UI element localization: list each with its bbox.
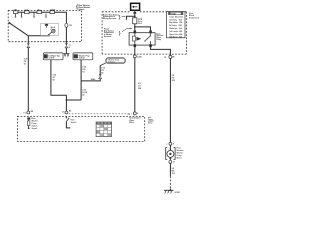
svg-text:Motor: Motor [129,121,134,124]
destination entry triangles [64,53,69,56]
connector circle C1 on x28 wire [23,111,33,114]
rear window wiper/washer switch S1 dashed boundary [8,10,81,41]
wire: wiper signal long run x28 [27,48,29,111]
connector circle mid at motor [128,112,138,116]
ground wire [169,163,171,176]
power distribution callout 2 [104,28,132,39]
wire label 0.8 GY 228 [138,83,141,90]
svg-text:93: 93 [82,71,84,73]
wire label x100 [101,67,105,74]
wire from arrow box [134,10,136,12]
wire vertical x100 from callout [99,66,101,75]
svg-text:Indicator: Indicator [108,60,115,63]
wire from left dest box x50.9 [51,60,67,96]
wash sub-switch box [41,23,59,36]
wash motor icon W1 [51,27,56,33]
relay coil [132,33,141,44]
svg-text:Rr Defog 25A: Rr Defog 25A [169,24,182,27]
liftgate note label [148,116,154,125]
washer feed wire right column [169,58,171,142]
relay label [156,33,163,41]
svg-text:Htd Mirror 15A: Htd Mirror 15A [169,35,182,38]
washer pump bracket right [174,148,176,160]
power distribution callout 1 [103,13,125,20]
wire into pump [169,145,171,150]
pump output pin [169,156,171,159]
wire x66 to destination split [65,48,67,53]
fuse F1 [133,18,137,24]
svg-text:OFF: OFF [14,9,17,11]
leader line to oval callout [100,63,106,66]
wire label 0.35 GY 92 [53,74,57,81]
svg-text:92: 92 [53,79,55,81]
oval reference callout box [106,58,126,64]
wire label 0.8 BK 155 [172,168,175,175]
svg-text:Cell 91: Cell 91 [49,58,55,60]
wire vertical x66 into motor [65,95,67,111]
svg-text:Dm Relay 10A: Dm Relay 10A [169,18,182,21]
svg-text:Switch: Switch [78,8,84,11]
destination box: interval wipe module [43,53,63,60]
motor label [129,118,141,124]
fuse label WPR 30A [138,19,143,25]
fuse block label [189,13,200,20]
svg-text:Wiring Systems: Wiring Systems [103,17,116,20]
svg-text:91: 91 [24,63,26,65]
washer pump bracket left [166,148,168,160]
washer pump label [177,148,184,160]
wiper arm pivot dot [8,22,10,24]
svg-text:G305: G305 [174,192,180,194]
connector circle washer pump top [166,142,174,146]
svg-text:Motor: Motor [177,157,182,160]
ground distribution dashed wire [169,176,171,188]
wire label 0.35 DG 94 [82,90,87,97]
svg-text:Radio Ign 10A: Radio Ign 10A [169,27,182,30]
switch contact box 4 [50,11,55,14]
svg-text:95: 95 [101,72,103,74]
circuit breaker CB ellipse [65,23,73,27]
switch contact box 3 [37,11,42,14]
connector circle pump bottom [169,160,175,163]
svg-text:Signal: Signal [32,128,38,130]
svg-text:C240: C240 [137,55,141,58]
wire horizontal y80.9 to splice [81,79,100,81]
park switch symbol [66,116,76,128]
switch contact box 2 [25,11,30,14]
motor function grid table [96,122,112,137]
relay K1 box [129,33,155,45]
wire horizontal y100 [66,99,81,101]
inline connector bowtie x100 [99,74,102,78]
contact stub and dot 4 [45,14,47,18]
branch arrowhead [126,19,128,21]
svg-text:Wpr Motor 30A: Wpr Motor 30A [169,21,183,24]
relay contact [144,33,151,44]
wire fuse to relay [134,24,136,30]
svg-text:155: 155 [172,173,175,175]
wire label 0.35 OG 93 [82,66,86,73]
fuse block legend table [167,12,186,39]
relay pin bottom left [134,44,137,47]
inline connector on wiper signal wire x28 [27,36,30,48]
svg-text:Underhood: Underhood [189,18,200,20]
ground G305 [164,189,181,195]
svg-text:Systems: Systems [104,35,111,38]
contact stub and dot 2 [21,12,23,17]
contact stub and dot 1 [15,14,17,18]
wash contact lead [46,26,48,28]
svg-text:Tail Lamps 15A: Tail Lamps 15A [169,30,182,33]
svg-text:}: } [119,14,121,20]
junction node dot S-wire [66,99,68,101]
svg-text:228: 228 [138,88,141,90]
svg-text:B2: B2 [69,111,71,113]
svg-text:C1: C1 [62,112,64,114]
relay pin top right [149,30,152,33]
switch bus wire [14,12,67,23]
svg-text:C2: C2 [164,57,166,59]
wiper common wire [28,35,50,37]
washer pump motor M1 [167,150,174,157]
main wiper feed wire mid column [134,58,136,112]
inline connector on wash wire x66 [65,43,71,49]
connector circle C1 on x66 wire [62,111,71,114]
rear window wiper motor dashed boundary [17,116,144,141]
node dot relay contact branch [134,26,136,28]
svg-text:Pump: Pump [51,29,56,31]
wire label 0.35 PK 91 [24,58,28,65]
switch position labels [14,8,56,11]
svg-text:C2: C2 [69,45,71,47]
svg-text:}: } [119,31,121,37]
svg-text:6: 6 [137,113,138,115]
wash contact block [45,24,48,26]
male pin mark at fuse block entry [133,12,136,14]
svg-text:C2: C2 [128,114,130,116]
wire from right dest box x81 [80,60,82,81]
svg-text:Glass: Glass [148,123,153,125]
svg-text:B6: B6 [172,57,174,59]
switch S1 label [76,5,91,11]
svg-text:Cell 92: Cell 92 [79,58,85,60]
contact stub and dot 3 [33,12,35,17]
branch wire to relay contact pin [135,27,151,30]
wire from CB to box edge [65,27,67,41]
wash switch lever [48,32,52,35]
relay pin bottom right [149,44,152,47]
connector circle C240 mid column [133,55,141,58]
svg-text:Switch: Switch [71,121,77,124]
park switch signal label [32,118,39,130]
svg-text:Relay: Relay [156,39,161,41]
wire label 0.8 PU 229 [172,75,175,82]
switch contact box 1 [13,11,18,14]
svg-text:229: 229 [172,80,175,82]
svg-text:Cmptr Mod 15A: Cmptr Mod 15A [169,15,183,18]
relay pin top left [134,30,137,33]
inner dashed line motor assembly [69,113,132,115]
wiper arm [9,23,28,36]
svg-text:C1: C1 [23,112,25,114]
connector circle right column [164,55,175,59]
wire to fuse [134,14,136,18]
off-page arrow reference box [131,3,140,10]
node dot power branch [134,15,136,17]
svg-text:B8: B8 [31,111,33,113]
wire S-bend lower vertical x81 [80,81,82,100]
power distribution branch wire [127,16,135,19]
wire relay output to C circle mid [134,47,136,55]
junction diamond at box edge [65,41,67,44]
destination box: washer pump feed [73,53,93,60]
park switch signal resistor stack [27,117,30,129]
relay switched output wire [151,47,171,55]
underhood fuse block dashed boundary [102,12,186,54]
